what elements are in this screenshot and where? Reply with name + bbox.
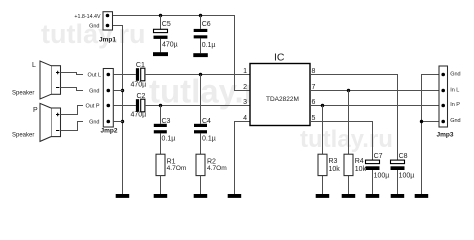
wire Jmp3 Gnd bottom	[421, 121, 439, 123]
connector Jmp3	[439, 66, 448, 127]
node junction Jmp2 Gnd lower	[121, 120, 124, 123]
capacitor C6	[194, 16, 208, 54]
node junction C4 branch on pin1 net	[199, 73, 202, 76]
svg-text:Speaker: Speaker	[12, 91, 34, 97]
capacitor C1	[136, 68, 145, 81]
node junction C5 on rail	[159, 14, 162, 17]
wire C2 to IC pin3	[145, 105, 250, 107]
svg-text:3: 3	[243, 99, 247, 106]
wire Jmp2 pin4 to gnd column	[113, 121, 123, 123]
svg-text:0.1µ: 0.1µ	[202, 42, 216, 49]
svg-text:100µ: 100µ	[374, 173, 390, 180]
wire IC pin6 to Jmp3 In P	[310, 105, 439, 107]
svg-text:C6: C6	[202, 21, 211, 28]
wire Jmp3 Gnd top to ground column	[422, 75, 440, 195]
svg-text:C8: C8	[399, 153, 408, 160]
wire IC pin5 to C7	[310, 122, 373, 161]
svg-text:Gnd: Gnd	[89, 23, 99, 29]
ground (R4)	[342, 194, 356, 198]
svg-text:Jmp1: Jmp1	[99, 37, 116, 44]
svg-text:C3: C3	[162, 118, 171, 125]
wire Jmp2 pin1 to C1	[113, 74, 136, 76]
node junction R4 branch	[347, 89, 350, 92]
svg-text:Gnd: Gnd	[450, 71, 460, 77]
svg-text:In P: In P	[450, 102, 460, 108]
svg-text:470µ: 470µ	[131, 111, 147, 118]
svg-text:C1: C1	[136, 62, 145, 69]
node junction Jmp2 Gnd upper	[121, 89, 124, 92]
svg-text:0.1µ: 0.1µ	[202, 135, 216, 142]
resistor R2	[196, 154, 205, 194]
ground (IC pin4)	[228, 194, 242, 198]
svg-text:8: 8	[312, 68, 316, 75]
resistor R3	[318, 106, 327, 195]
ground (R1)	[154, 194, 168, 198]
svg-text:Gnd: Gnd	[89, 119, 99, 125]
svg-text:470µ: 470µ	[162, 41, 178, 48]
wire IC pin4 to ground	[235, 122, 251, 195]
ground (R2)	[194, 194, 208, 198]
capacitor C4	[194, 75, 207, 155]
svg-text:R3: R3	[329, 158, 338, 165]
svg-text:Out P: Out P	[85, 104, 99, 110]
svg-text:4.7Om: 4.7Om	[167, 165, 187, 172]
ground (C6)	[193, 53, 208, 57]
wire Jmp2 pin3 to C2	[113, 105, 136, 107]
svg-text:C7: C7	[374, 153, 383, 160]
ground (Jmp3 Gnd)	[415, 194, 429, 198]
svg-text:Jmp3: Jmp3	[437, 132, 454, 139]
ground (C8)	[391, 194, 405, 198]
ground (C7)	[366, 194, 380, 198]
connector Jmp2	[103, 69, 113, 128]
node junction R3 branch	[321, 104, 324, 107]
wire IC pin8 to C8	[310, 75, 398, 161]
capacitor C7	[366, 160, 380, 194]
svg-text:tutlay.ru: tutlay.ru	[300, 126, 393, 153]
node junction C6 on rail	[199, 14, 202, 17]
wire speaker P + to Out P	[61, 106, 84, 115]
svg-text:Jmp2: Jmp2	[101, 127, 118, 134]
svg-text:10k: 10k	[329, 166, 341, 173]
svg-text:2: 2	[243, 84, 247, 91]
svg-text:R4: R4	[355, 158, 364, 165]
ground (Jmp1/Jmp2 Gnd column)	[116, 194, 130, 198]
wire speaker L - to Gnd	[61, 88, 84, 91]
svg-text:P: P	[33, 107, 38, 114]
node junction Jmp3 Gnd column	[420, 120, 423, 123]
ground (R3)	[316, 194, 330, 198]
wire top rail +V from Jmp1 to IC pin2	[113, 16, 251, 91]
svg-text:100µ: 100µ	[399, 173, 415, 180]
node junction C3 branch on pin3 net	[159, 104, 162, 107]
connector Jmp1	[103, 12, 113, 30]
svg-text:0.1µ: 0.1µ	[162, 135, 176, 142]
speaker P	[40, 103, 61, 141]
wire Jmp1 Gnd to ground column	[113, 26, 123, 195]
svg-text:L: L	[32, 62, 36, 69]
svg-text:Gnd: Gnd	[89, 88, 99, 94]
capacitor C8	[391, 160, 405, 194]
svg-text:IC: IC	[274, 51, 285, 63]
svg-text:C4: C4	[202, 118, 211, 125]
wire speaker P - to Gnd	[61, 122, 84, 131]
wire speaker L + to Out L	[61, 73, 84, 75]
capacitor C2	[136, 99, 145, 112]
ground (C5)	[153, 52, 168, 56]
svg-text:4.7Om: 4.7Om	[207, 165, 227, 172]
wire IC pin7 to Jmp3 In L	[310, 90, 439, 92]
wire Jmp2 pin2 to gnd column	[113, 90, 123, 92]
svg-text:In L: In L	[450, 87, 459, 93]
svg-text:470µ: 470µ	[131, 81, 147, 88]
svg-text:1: 1	[243, 68, 247, 75]
svg-text:+1.8-14.4V: +1.8-14.4V	[74, 14, 101, 20]
op-amp IC TDA2822M	[250, 64, 310, 126]
capacitor C3	[154, 106, 167, 155]
svg-text:5: 5	[312, 115, 316, 122]
capacitor C5	[154, 16, 168, 53]
svg-text:C2: C2	[137, 93, 146, 100]
svg-text:Gnd: Gnd	[450, 118, 460, 124]
svg-text:TDA2822M: TDA2822M	[266, 96, 299, 103]
resistor R1	[156, 154, 165, 194]
svg-text:Out L: Out L	[88, 73, 101, 79]
wire C1 to IC pin1	[145, 74, 250, 76]
speaker L	[40, 61, 61, 99]
svg-text:C5: C5	[162, 21, 171, 28]
resistor R4	[344, 91, 353, 195]
svg-text:Speaker: Speaker	[12, 133, 34, 139]
svg-text:6: 6	[312, 99, 316, 106]
svg-text:7: 7	[312, 84, 316, 91]
svg-text:10k: 10k	[355, 166, 367, 173]
svg-text:4: 4	[243, 115, 247, 122]
